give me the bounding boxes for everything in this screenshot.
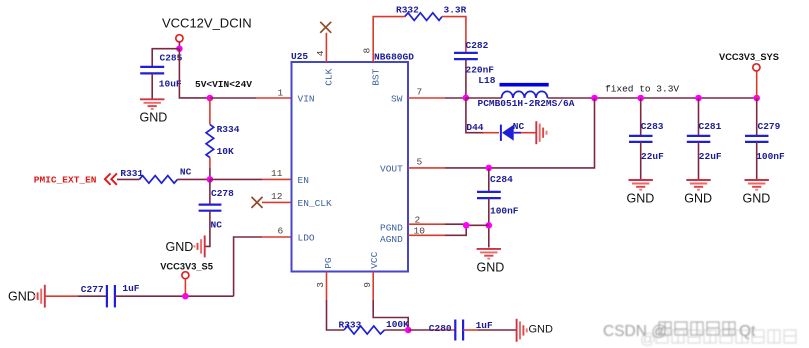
junction R333/VCC xyxy=(405,327,412,334)
wire junction to R334 xyxy=(209,98,211,125)
pin stub VCC pin 9 xyxy=(372,272,374,301)
wire C277 to LDO riser xyxy=(115,295,234,297)
svg-text:GND: GND xyxy=(477,260,505,274)
wire PG down xyxy=(327,300,345,330)
wire D44 anode to ground xyxy=(521,132,536,134)
svg-text:NC: NC xyxy=(211,219,223,230)
ground at C277 (rotated left) xyxy=(35,285,45,308)
svg-text:C281: C281 xyxy=(699,121,722,132)
svg-text:CSDN @: CSDN @ xyxy=(603,323,667,340)
svg-text:GND: GND xyxy=(8,289,36,303)
capacitor C281 xyxy=(687,136,711,142)
power port VCC3V3_SYS circle xyxy=(753,64,760,71)
svg-text:22uF: 22uF xyxy=(699,151,722,162)
svg-text:VCC3V3_S5: VCC3V3_S5 xyxy=(160,261,213,271)
svg-text:2: 2 xyxy=(415,214,421,225)
svg-text:12: 12 xyxy=(271,191,283,202)
svg-text:L18: L18 xyxy=(478,75,495,86)
wire to C285 xyxy=(152,49,179,67)
ground at C278 (rotated left) xyxy=(195,235,205,257)
capacitor C278 xyxy=(199,205,222,211)
svg-text:7: 7 xyxy=(417,87,423,98)
svg-text:EN: EN xyxy=(298,175,309,186)
pin stub AGND pin 10 xyxy=(408,234,445,236)
wire C283 bottom xyxy=(640,142,642,180)
wire VCC3V3_SYS riser xyxy=(756,71,758,98)
svg-text:VIN: VIN xyxy=(298,94,315,105)
wire C278 to ground xyxy=(205,211,210,247)
svg-text:C280: C280 xyxy=(429,323,452,334)
svg-text:BST: BST xyxy=(371,68,382,85)
junction C283 xyxy=(637,95,644,102)
wire C283 top xyxy=(640,98,642,136)
watermark CSDN xyxy=(603,322,756,340)
wire SW to junction xyxy=(445,97,466,99)
svg-text:9: 9 xyxy=(362,282,373,288)
svg-text:VCC3V3_SYS: VCC3V3_SYS xyxy=(719,52,779,62)
svg-text:GND: GND xyxy=(529,323,554,335)
svg-text:EN_CLK: EN_CLK xyxy=(298,198,333,209)
watermark overlay xyxy=(640,330,796,348)
pin stub LDO pin 6 xyxy=(262,236,292,238)
junction VOUT feedback xyxy=(591,95,598,102)
svg-text:100nF: 100nF xyxy=(490,205,519,216)
wire L18 to output rail xyxy=(548,97,757,99)
wire VIN to pin 1 xyxy=(210,97,256,99)
svg-text:SW: SW xyxy=(391,94,403,105)
pin stub VIN pin 1 xyxy=(256,97,292,99)
junction node EN xyxy=(207,176,214,183)
svg-text:11: 11 xyxy=(271,168,283,179)
capacitor C279 xyxy=(745,136,769,142)
svg-text:@: @ xyxy=(640,331,656,348)
inductor L18 coil xyxy=(502,91,548,98)
diode D44 xyxy=(501,125,521,141)
svg-text:R334: R334 xyxy=(217,124,240,135)
resistor R332 xyxy=(405,13,442,21)
pin stub BST pin 8 xyxy=(373,17,405,62)
wire C279 top xyxy=(756,98,758,136)
svg-text:NB680GD: NB680GD xyxy=(374,52,414,63)
wire R331 to EN junction xyxy=(178,178,210,180)
junction C279 / VCC3V3_SYS xyxy=(753,95,760,102)
inductor L18 bar xyxy=(500,83,549,87)
wire EN junction down to C278 xyxy=(209,179,211,204)
wire ground to C277 xyxy=(45,295,78,297)
no-connect X at CLK xyxy=(320,22,331,33)
svg-text:GND: GND xyxy=(743,191,771,205)
svg-text:PMIC_EXT_EN: PMIC_EXT_EN xyxy=(34,175,97,186)
svg-text:PGND: PGND xyxy=(380,222,403,233)
junction node VIN / R334 xyxy=(207,95,214,102)
power port VCC3V3_S5 circle xyxy=(182,272,189,279)
svg-text:10: 10 xyxy=(414,225,426,236)
svg-text:10K: 10K xyxy=(217,146,234,157)
capacitor C280 xyxy=(455,320,463,341)
power port VCC12V_DCIN circle xyxy=(176,35,183,42)
junction C284 bottom xyxy=(486,222,493,229)
no-connect X at EN_CLK xyxy=(252,197,263,208)
wire C281 bottom xyxy=(698,142,700,180)
pin stub VOUT pin 5 xyxy=(408,167,445,169)
wire C281 top xyxy=(698,98,700,136)
pin stub PG pin 3 xyxy=(326,272,328,301)
wire EN to pin 11 xyxy=(210,178,262,180)
ground at C280 (rotated right) xyxy=(517,319,527,342)
svg-text:C284: C284 xyxy=(490,174,513,185)
wire AGND to junction xyxy=(445,225,466,235)
svg-text:GND: GND xyxy=(684,191,712,205)
wire feedback riser xyxy=(445,98,595,168)
ground at C284 xyxy=(477,249,501,259)
junction node SW xyxy=(463,95,470,102)
svg-text:GND: GND xyxy=(140,110,168,124)
svg-text:6: 6 xyxy=(278,226,284,237)
pin stub EN_CLK pin 12 xyxy=(262,201,292,203)
junction at C285 tap xyxy=(176,45,183,52)
wire port to R331 xyxy=(117,178,139,180)
svg-text:1: 1 xyxy=(278,87,284,98)
svg-text:3.3R: 3.3R xyxy=(444,5,467,16)
wire SW to D44 xyxy=(466,98,483,133)
pin stub PGND pin 2 xyxy=(408,223,445,225)
svg-text:22uF: 22uF xyxy=(641,151,664,162)
svg-text:5V<VIN<24V: 5V<VIN<24V xyxy=(195,79,252,90)
ground under C285 xyxy=(140,99,164,109)
wire R334 to EN node xyxy=(209,158,211,169)
wire R333 to junction xyxy=(385,329,409,331)
svg-text:1uF: 1uF xyxy=(122,283,139,294)
resistor R334 xyxy=(206,125,214,158)
svg-text:GND: GND xyxy=(166,240,194,254)
svg-text:PG: PG xyxy=(323,257,334,269)
wire VCC12V_DCIN down to VIN rail xyxy=(179,49,210,98)
svg-text:U25: U25 xyxy=(291,51,308,62)
svg-text:100nF: 100nF xyxy=(756,151,785,162)
junction C281 xyxy=(695,95,702,102)
capacitor C277 xyxy=(107,285,115,307)
svg-text:PCMB051H-2R2MS/6A: PCMB051H-2R2MS/6A xyxy=(478,98,575,109)
svg-text:NC: NC xyxy=(180,166,192,177)
capacitor C283 xyxy=(629,136,653,142)
svg-text:C283: C283 xyxy=(641,121,664,132)
wire SW junction to L18 xyxy=(466,97,502,99)
wire to VCC3V3_S5 circle xyxy=(184,279,186,296)
junction VCC3V3_S5 xyxy=(182,293,189,300)
svg-text:C277: C277 xyxy=(81,284,104,295)
svg-text:fixed to 3.3V: fixed to 3.3V xyxy=(605,83,679,94)
svg-text:AGND: AGND xyxy=(380,234,403,245)
svg-text:C279: C279 xyxy=(758,121,781,132)
svg-text:3: 3 xyxy=(315,282,326,288)
svg-text:D44: D44 xyxy=(466,122,483,133)
pin stub EN pin 11 xyxy=(262,178,292,180)
wire R332 to C282 xyxy=(442,17,466,53)
pin stub CLK pin 4 xyxy=(325,33,327,62)
capacitor C284 xyxy=(477,192,501,198)
wire junction to C280 xyxy=(408,329,430,331)
capacitor C282 xyxy=(454,53,478,59)
junction AGND/PGND xyxy=(463,222,470,229)
svg-text:GND: GND xyxy=(627,191,655,205)
ground at C279 xyxy=(745,180,769,190)
port PMIC_EXT_EN chevrons xyxy=(105,173,117,184)
svg-text:NC: NC xyxy=(513,121,525,132)
wire PGND to junction xyxy=(445,224,489,225)
wire VCC12V_DCIN stub xyxy=(178,42,180,49)
svg-text:LDO: LDO xyxy=(298,233,315,244)
wire C285 to ground xyxy=(151,73,153,98)
pin stub SW pin 7 xyxy=(408,97,445,99)
wire LDO net xyxy=(234,237,262,296)
resistor R333 xyxy=(344,326,385,334)
svg-text:5: 5 xyxy=(417,157,423,168)
svg-text:10uF: 10uF xyxy=(159,78,182,89)
ground at C281 xyxy=(686,180,710,190)
ground at D44 (rotated right) xyxy=(536,121,546,144)
resistor R331 xyxy=(139,176,177,184)
svg-text:VCC12V_DCIN: VCC12V_DCIN xyxy=(162,16,252,31)
svg-text:CLK: CLK xyxy=(324,68,335,85)
wire VCC down to junction xyxy=(373,300,408,330)
svg-text:C278: C278 xyxy=(211,188,234,199)
IC U25 body xyxy=(292,62,409,272)
ground at C283 xyxy=(629,180,653,190)
svg-text:VCC: VCC xyxy=(369,251,380,268)
svg-text:4: 4 xyxy=(315,50,326,56)
svg-text:VOUT: VOUT xyxy=(380,164,403,175)
wire C280 to ground xyxy=(463,329,478,331)
svg-text:8: 8 xyxy=(361,48,372,54)
junction C284 top xyxy=(486,165,493,172)
wire C279 bottom xyxy=(756,142,758,180)
diode D44 lead xyxy=(483,132,499,134)
wire C282 to SW node xyxy=(465,59,467,98)
capacitor C285 xyxy=(140,67,164,74)
wire C284 bottom xyxy=(488,198,490,247)
svg-text:C282: C282 xyxy=(466,40,489,51)
wire C284 top xyxy=(488,168,490,192)
